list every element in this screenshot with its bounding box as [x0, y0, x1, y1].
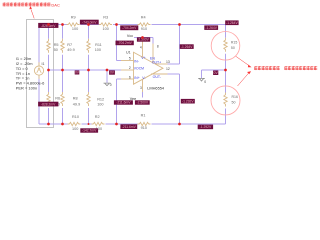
pin 13 lead OUT+	[155, 63, 168, 65]
junction dots bottom rail	[47, 123, 50, 126]
svg-text:R16: R16	[232, 95, 238, 99]
svg-text:PER = 100n: PER = 100n	[16, 85, 37, 90]
svg-text:100: 100	[95, 48, 101, 52]
svg-text:50: 50	[54, 48, 58, 52]
resistor R2	[92, 122, 105, 125]
svg-text:R10: R10	[72, 115, 79, 119]
ground node 0 left	[104, 83, 111, 86]
svg-text:100: 100	[72, 127, 78, 131]
svg-text:12: 12	[166, 67, 170, 71]
node voltage label -1.264V (OUT+ wire)	[180, 44, 194, 49]
junction dots middle rail	[47, 69, 50, 72]
red highlight circle around R16	[211, 86, 240, 115]
resistor R5	[47, 39, 50, 53]
wire IN- input	[116, 25, 118, 61]
node voltage label -743.0mV	[80, 20, 99, 25]
svg-text:-1.292V: -1.292V	[200, 125, 212, 129]
wire R11/R12 column	[88, 25, 90, 39]
red annotation arrow to DAC box	[31, 9, 34, 18]
svg-text:U1: U1	[126, 50, 131, 54]
node voltage label -2.500V (Vee)	[135, 100, 150, 104]
red annotation arrow from R15 circle	[236, 56, 249, 65]
svg-text:4: 4	[140, 45, 142, 49]
resistor R3	[99, 23, 112, 26]
pin 3 lead V-	[142, 79, 144, 92]
svg-text:2: 2	[129, 66, 131, 70]
node voltage label 0V (right mid node)	[213, 71, 218, 76]
wire current source top	[38, 25, 40, 67]
wire right output column	[225, 25, 227, 38]
resistor R12	[87, 92, 90, 106]
current source I1	[38, 62, 40, 66]
wire R7/R8 column	[62, 25, 64, 39]
svg-text:50: 50	[231, 46, 235, 50]
wire mid node to ground right	[202, 69, 226, 71]
svg-text:-1.292V: -1.292V	[182, 100, 194, 104]
red annotation text top-left: dashed box is simulated current-output differential DAC	[3, 2, 51, 6]
resistor R6	[47, 92, 50, 106]
svg-text:R12: R12	[97, 98, 104, 102]
svg-text:R2: R2	[95, 115, 100, 119]
red highlight circle around R15	[211, 32, 240, 61]
wire Vcc to V+ and EN	[134, 37, 153, 39]
node voltage label -826.5mV (DAC out+)	[38, 23, 58, 28]
svg-text:13: 13	[166, 60, 170, 64]
svg-text:V+: V+	[141, 56, 145, 60]
node voltage label -1.264V (below top rail)	[204, 25, 218, 30]
wire bottom rail	[39, 123, 68, 125]
svg-text:R9: R9	[71, 15, 76, 19]
svg-text:VOCM: VOCM	[134, 66, 144, 70]
junction dots top rail	[47, 23, 50, 26]
pin 4 lead V+	[142, 41, 144, 57]
svg-text:Vcc: Vcc	[127, 34, 133, 38]
svg-text:EN: EN	[150, 56, 155, 60]
resistor R9	[67, 23, 80, 26]
svg-text:DAC: DAC	[51, 2, 60, 7]
svg-text:-1.264V: -1.264V	[226, 21, 238, 25]
svg-text:-828.2mV: -828.2mV	[41, 102, 56, 106]
node voltage label -211.6mV (IN+ wire)	[114, 100, 133, 104]
DAC dashed outline box	[27, 20, 54, 128]
node voltage label -828.2mV (DAC out-)	[38, 102, 58, 107]
svg-text:R5: R5	[54, 43, 59, 47]
wire IN+ input	[116, 79, 118, 124]
svg-text:0: 0	[110, 83, 112, 87]
wire middle rail to VOCM pin	[49, 69, 122, 71]
node voltage label -1.292V (OUT- wire)	[181, 99, 195, 104]
pin 6 lead IN+	[121, 78, 134, 80]
svg-text:R8: R8	[73, 97, 78, 101]
red annotation text right: two 50 ohm loads simulate ADC differential input impedance	[254, 66, 317, 70]
svg-text:100: 100	[103, 27, 109, 31]
op-amp U1 LMH6554	[134, 52, 164, 84]
ground node 0 right	[198, 78, 205, 81]
resistor R11	[87, 39, 90, 53]
pin 2 lead VOCM	[121, 69, 134, 71]
svg-text:-704.2mV: -704.2mV	[118, 41, 133, 45]
svg-text:R3: R3	[103, 15, 108, 19]
svg-text:-211.6mV: -211.6mV	[116, 101, 131, 105]
svg-text:R6: R6	[55, 97, 60, 101]
svg-text:-704.2mV: -704.2mV	[122, 26, 137, 30]
node voltage label -1.264V (above corner)	[225, 20, 238, 25]
svg-text:910: 910	[141, 27, 147, 31]
svg-text:5: 5	[129, 57, 131, 61]
wire top rail	[39, 24, 67, 26]
svg-text:49.9: 49.9	[67, 48, 74, 52]
svg-text:OUT+: OUT+	[152, 61, 161, 65]
node voltage label -211.6mV (bottom rail)	[120, 124, 137, 129]
svg-text:I1: I1	[42, 62, 45, 66]
resistor R16	[224, 93, 227, 107]
svg-text:R1: R1	[141, 113, 146, 117]
svg-text:R15: R15	[231, 41, 237, 45]
resistor R8	[61, 92, 64, 106]
node voltage label -704.2mV (top rail)	[120, 25, 138, 30]
svg-text:-142.7mV: -142.7mV	[82, 129, 97, 133]
svg-text:LMH6554: LMH6554	[147, 86, 165, 91]
svg-text:-1.264V: -1.264V	[181, 45, 193, 49]
junction dot Vcc	[141, 36, 144, 39]
svg-text:R7: R7	[67, 43, 72, 47]
node voltage label -142.7mV (bottom rail)	[80, 128, 98, 132]
wire OUT- to bottom rail	[168, 73, 180, 75]
svg-text:49.9: 49.9	[73, 102, 80, 106]
svg-text:-2.500V: -2.500V	[137, 101, 149, 105]
resistor R4	[138, 23, 151, 26]
svg-text:R11: R11	[95, 43, 102, 47]
svg-text:OUT-: OUT-	[153, 75, 162, 79]
wire R5/R6 column	[48, 25, 50, 39]
resistor R10	[68, 122, 81, 125]
svg-text:100: 100	[97, 102, 103, 106]
svg-text:R4: R4	[141, 15, 146, 19]
resistor R7	[61, 39, 64, 53]
resistor R15	[224, 38, 227, 52]
wire current source bottom	[38, 75, 40, 124]
svg-text:100: 100	[72, 27, 78, 31]
node voltage label 0V (middle rail)	[75, 71, 80, 75]
node voltage label -704.2mV (IN- wire)	[116, 41, 134, 46]
pin 8 lead EN	[152, 44, 154, 63]
svg-text:-211.6mV: -211.6mV	[122, 125, 137, 129]
svg-text:3: 3	[140, 86, 142, 90]
wire Vee lead tail	[142, 92, 144, 98]
wire left ground stub	[106, 70, 108, 83]
node voltage label 0V (VOCM wire)	[109, 70, 115, 74]
pin 12 lead OUT-	[151, 73, 168, 75]
red annotation arrow from R16 circle	[238, 74, 249, 86]
resistor R1	[138, 122, 151, 125]
svg-text:8: 8	[157, 44, 159, 48]
svg-text:2.500V: 2.500V	[138, 38, 149, 42]
wire OUT+ to top rail	[168, 63, 180, 65]
svg-text:-1.264V: -1.264V	[205, 26, 217, 30]
svg-text:IN+: IN+	[134, 76, 140, 80]
svg-text:6: 6	[129, 75, 131, 79]
svg-text:0: 0	[204, 80, 206, 84]
svg-text:50: 50	[232, 100, 236, 104]
pin 5 lead IN-	[121, 60, 134, 62]
svg-text:910: 910	[141, 126, 147, 130]
node voltage label 2.500V (Vcc)	[137, 37, 150, 41]
node voltage label -1.292V (bottom right)	[198, 125, 213, 130]
